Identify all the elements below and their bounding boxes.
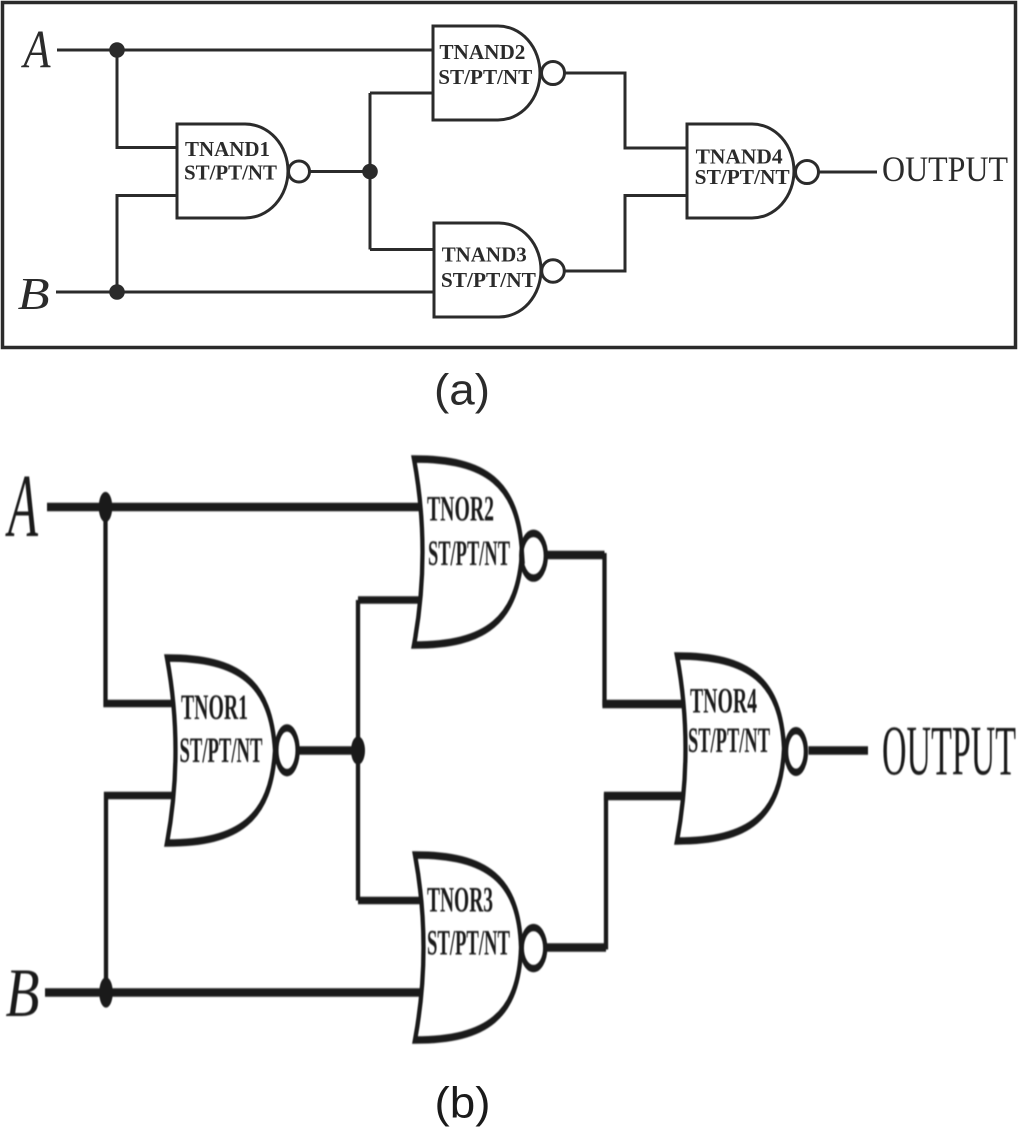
svg-text:ST/PT/NT: ST/PT/NT [184, 161, 277, 185]
svg-text:TNOR3: TNOR3 [427, 881, 493, 920]
svg-text:A: A [21, 20, 51, 80]
svg-text:ST/PT/NT: ST/PT/NT [428, 534, 510, 573]
svg-text:OUTPUT: OUTPUT [882, 149, 1008, 189]
svg-text:ST/PT/NT: ST/PT/NT [695, 165, 790, 189]
svg-text:(a): (a) [434, 366, 490, 415]
svg-text:ST/PT/NT: ST/PT/NT [427, 924, 510, 963]
svg-text:TNAND3: TNAND3 [442, 243, 527, 267]
svg-text:TNOR1: TNOR1 [181, 688, 248, 727]
svg-text:ST/PT/NT: ST/PT/NT [438, 65, 532, 89]
svg-text:TNAND1: TNAND1 [185, 137, 270, 161]
svg-text:OUTPUT: OUTPUT [882, 713, 1016, 790]
svg-text:ST/PT/NT: ST/PT/NT [180, 731, 263, 770]
svg-text:(b): (b) [435, 1079, 491, 1127]
svg-text:B: B [18, 268, 50, 319]
svg-text:TNAND2: TNAND2 [439, 40, 525, 64]
svg-text:B: B [6, 956, 40, 1032]
svg-text:ST/PT/NT: ST/PT/NT [688, 721, 770, 760]
svg-text:TNOR2: TNOR2 [427, 490, 494, 529]
svg-text:ST/PT/NT: ST/PT/NT [441, 268, 536, 292]
svg-text:TNOR4: TNOR4 [690, 682, 757, 721]
svg-text:A: A [5, 455, 39, 555]
